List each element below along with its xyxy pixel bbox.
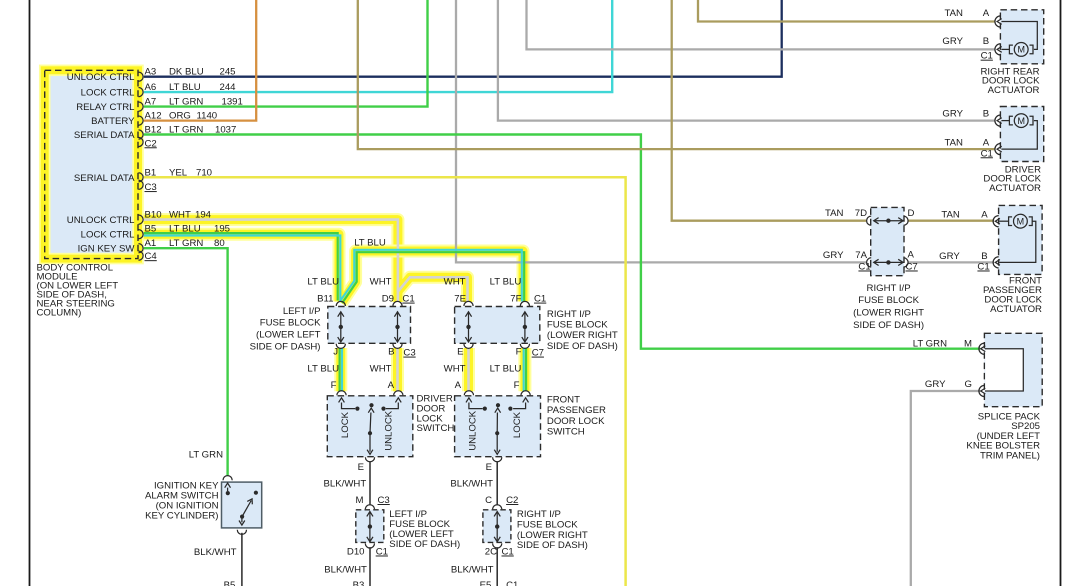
svg-text:SERIAL DATA: SERIAL DATA xyxy=(74,173,135,184)
svg-text:J: J xyxy=(333,346,338,357)
svg-text:A1: A1 xyxy=(145,238,157,249)
wire GRY from splice pack G down at x=910.8 xyxy=(911,391,980,586)
svg-text:C1: C1 xyxy=(981,51,993,62)
splice pack SP205 box xyxy=(984,333,1042,406)
wire LT GRN 80 from BCM A1 to ignition key alarm switch xyxy=(143,248,228,476)
svg-text:C1: C1 xyxy=(534,294,546,305)
svg-text:FUSE BLOCK: FUSE BLOCK xyxy=(517,519,578,530)
svg-text:B11: B11 xyxy=(317,294,333,305)
svg-text:TAN: TAN xyxy=(941,210,960,221)
svg-text:GRY: GRY xyxy=(942,36,963,47)
svg-text:C3: C3 xyxy=(378,495,390,506)
left I/P fuse block (horizontal) box xyxy=(328,307,411,344)
svg-text:(LOWER RIGHT: (LOWER RIGHT xyxy=(547,330,618,341)
svg-text:LOCK CTRL: LOCK CTRL xyxy=(81,230,136,241)
svg-text:LT GRN: LT GRN xyxy=(189,450,223,461)
svg-text:(LOWER LEFT: (LOWER LEFT xyxy=(256,330,321,341)
svg-text:LT GRN: LT GRN xyxy=(169,238,203,249)
body control module U1 box with yellow highlight xyxy=(45,70,138,258)
wire BLK/WHT passenger switch E to right I/P fuse block C xyxy=(496,462,498,505)
svg-text:F: F xyxy=(331,380,337,391)
driver door lock switch box xyxy=(327,396,413,457)
svg-text:SWITCH: SWITCH xyxy=(547,427,585,438)
frame right border xyxy=(1060,0,1062,586)
svg-text:LT GRN: LT GRN xyxy=(169,125,203,136)
svg-text:B5: B5 xyxy=(145,224,157,235)
svg-text:LT BLU: LT BLU xyxy=(169,82,201,93)
svg-text:A: A xyxy=(983,138,990,149)
svg-text:SIDE OF DASH): SIDE OF DASH) xyxy=(547,341,618,352)
svg-text:LT BLU: LT BLU xyxy=(307,364,339,375)
svg-text:DOOR LOCK: DOOR LOCK xyxy=(547,416,605,427)
right I/P fuse block (vertical, right side) box xyxy=(871,207,904,275)
svg-text:WHT: WHT xyxy=(169,210,191,221)
svg-text:E: E xyxy=(486,462,492,473)
svg-text:A12: A12 xyxy=(145,111,162,122)
svg-text:TAN: TAN xyxy=(945,138,964,149)
svg-text:B12: B12 xyxy=(145,125,162,136)
svg-text:TRIM PANEL): TRIM PANEL) xyxy=(980,450,1040,461)
svg-text:A6: A6 xyxy=(145,82,157,93)
svg-text:FUSE BLOCK: FUSE BLOCK xyxy=(858,295,919,306)
svg-text:GRY: GRY xyxy=(942,109,963,120)
svg-text:1391: 1391 xyxy=(222,97,243,108)
svg-text:LT BLU: LT BLU xyxy=(169,224,201,235)
wire GRY from top to right rear door lock actuator B xyxy=(527,0,995,49)
splice pack SP205 interior xyxy=(979,343,1023,397)
wire YEL 710 from BCM B1 down at x=625.6 xyxy=(143,177,626,586)
right I/P fuse block (vertical) pins and fuses xyxy=(867,216,908,267)
svg-text:BLK/WHT: BLK/WHT xyxy=(324,565,367,576)
wire GRY from right I/P fuse block A to front passenger actuator B xyxy=(909,261,995,263)
svg-text:BLK/WHT: BLK/WHT xyxy=(450,479,493,490)
wire BLK/WHT driver switch E to left I/P fuse block M xyxy=(369,462,371,505)
svg-text:SIDE OF DASH): SIDE OF DASH) xyxy=(250,341,321,352)
svg-text:C3: C3 xyxy=(403,348,415,359)
wire LT BLU pair from fuse J to driver door lock switch F xyxy=(339,348,341,391)
driver door lock actuator interior xyxy=(995,114,1037,155)
wire BLK/WHT ignition key alarm switch down xyxy=(241,533,243,586)
svg-text:C1: C1 xyxy=(977,262,989,273)
svg-text:SERIAL DATA: SERIAL DATA xyxy=(74,130,135,141)
svg-text:7F: 7F xyxy=(510,294,521,305)
svg-text:RIGHT I/P: RIGHT I/P xyxy=(517,509,561,520)
wire TAN from top to right I/P fuse block 7D xyxy=(672,0,867,221)
svg-text:A: A xyxy=(981,210,988,221)
svg-text:UNLOCK: UNLOCK xyxy=(384,410,395,451)
svg-text:COLUMN): COLUMN) xyxy=(37,308,82,319)
svg-text:UNLOCK: UNLOCK xyxy=(468,410,479,451)
svg-text:7D: 7D xyxy=(855,208,867,219)
wire BLK/WHT left I/P fuse block D10 down xyxy=(369,547,371,586)
svg-text:710: 710 xyxy=(196,167,212,178)
svg-text:C: C xyxy=(485,495,492,506)
svg-text:B: B xyxy=(983,109,989,120)
front passenger door lock actuator box xyxy=(999,205,1043,274)
driver door lock actuator box xyxy=(1000,107,1043,162)
svg-text:FUSE BLOCK: FUSE BLOCK xyxy=(547,320,608,331)
svg-text:ACTUATOR: ACTUATOR xyxy=(988,85,1040,96)
svg-text:YEL: YEL xyxy=(169,167,188,178)
svg-text:WHT: WHT xyxy=(444,364,466,375)
svg-text:F: F xyxy=(514,380,520,391)
wire BLK/WHT right I/P fuse block 2C down xyxy=(496,547,498,586)
left I/P fuse block pins and fuses xyxy=(336,301,402,348)
svg-text:195: 195 xyxy=(214,224,230,235)
svg-text:RIGHT I/P: RIGHT I/P xyxy=(547,309,591,320)
svg-text:E5: E5 xyxy=(480,580,492,586)
svg-text:7A: 7A xyxy=(855,250,867,261)
svg-text:LOCK CTRL: LOCK CTRL xyxy=(81,88,136,99)
highlight glow: LT BLU 195 circuit xyxy=(143,234,525,391)
svg-text:C1: C1 xyxy=(376,547,388,558)
wire GRY from top to driver door lock actuator B xyxy=(498,0,995,121)
svg-text:A3: A3 xyxy=(145,67,157,78)
svg-text:BLK/WHT: BLK/WHT xyxy=(451,565,494,576)
highlight glow: WHT 194 circuit xyxy=(143,220,469,392)
svg-text:FUSE BLOCK: FUSE BLOCK xyxy=(260,318,321,329)
wire LT BLU 195 pair from BCM B5 to left I/P fuse block B11 xyxy=(143,233,338,300)
svg-text:(LOWER RIGHT: (LOWER RIGHT xyxy=(853,308,924,319)
svg-text:1140: 1140 xyxy=(197,111,218,122)
wire LT GRN 1391 from BCM A7 up at x=427.5 xyxy=(143,0,428,107)
svg-text:B1: B1 xyxy=(145,167,157,178)
svg-text:B5: B5 xyxy=(224,580,236,586)
svg-text:SWITCH: SWITCH xyxy=(417,423,455,434)
svg-text:BLK/WHT: BLK/WHT xyxy=(324,479,367,490)
svg-text:M: M xyxy=(964,339,972,350)
svg-text:TAN: TAN xyxy=(825,208,844,219)
front passenger door lock actuator interior xyxy=(993,214,1036,268)
wire WHT branch to right I/P fuse block 7E xyxy=(398,277,468,302)
wire WHT 194 from BCM B10 to left I/P fuse block D9 xyxy=(143,220,398,302)
svg-text:UNLOCK CTRL: UNLOCK CTRL xyxy=(67,215,135,226)
left I/P fuse block (small, lower) box xyxy=(356,510,384,543)
svg-text:C2: C2 xyxy=(506,495,518,506)
svg-text:LT BLU: LT BLU xyxy=(490,364,522,375)
svg-text:A: A xyxy=(983,8,990,19)
svg-text:C7: C7 xyxy=(906,262,918,273)
svg-text:LEFT I/P: LEFT I/P xyxy=(283,306,321,317)
wire LT BLU 244 from BCM A6 up at x=612.2 xyxy=(143,0,612,92)
svg-text:A: A xyxy=(455,380,462,391)
svg-text:194: 194 xyxy=(195,210,212,221)
svg-text:M: M xyxy=(356,495,364,506)
ignition key alarm switch interior xyxy=(223,476,258,535)
svg-text:A: A xyxy=(388,380,395,391)
svg-text:C7: C7 xyxy=(532,348,544,359)
svg-text:D9: D9 xyxy=(382,294,394,305)
wire LT BLU branch pair to right I/P fuse block 7F xyxy=(342,252,524,303)
svg-text:ORG: ORG xyxy=(169,111,191,122)
right I/P fuse block (small, lower) box xyxy=(483,510,511,543)
svg-text:LOCK: LOCK xyxy=(512,411,523,438)
svg-text:SIDE OF DASH): SIDE OF DASH) xyxy=(853,320,924,331)
svg-text:D: D xyxy=(908,208,915,219)
svg-text:FRONT: FRONT xyxy=(547,395,580,406)
driver door lock switch interior xyxy=(337,391,403,462)
svg-text:C1: C1 xyxy=(502,547,514,558)
svg-text:E: E xyxy=(457,346,463,357)
wire LT GRN 1037 from BCM B12 to splice pack M xyxy=(143,135,980,349)
svg-text:244: 244 xyxy=(220,82,237,93)
svg-text:80: 80 xyxy=(214,238,225,249)
svg-text:LOCK: LOCK xyxy=(340,411,351,438)
svg-text:245: 245 xyxy=(220,67,236,78)
svg-text:B: B xyxy=(981,251,987,262)
wire TAN from right I/P fuse block D to front passenger actuator A xyxy=(909,220,995,222)
wire TAN from top to driver door lock actuator A xyxy=(358,0,995,149)
BCM pin arcs xyxy=(139,72,144,260)
svg-text:SIDE OF DASH): SIDE OF DASH) xyxy=(517,540,588,551)
svg-text:BATTERY: BATTERY xyxy=(91,116,135,127)
right I/P fuse block (horizontal) pins and fuses xyxy=(464,301,530,348)
svg-text:C3: C3 xyxy=(145,182,157,193)
wire WHT from fuse E to front passenger door lock switch A xyxy=(467,348,470,391)
svg-text:C1: C1 xyxy=(858,262,870,273)
svg-text:ACTUATOR: ACTUATOR xyxy=(989,183,1041,194)
svg-text:GRY: GRY xyxy=(925,379,946,390)
svg-text:GRY: GRY xyxy=(823,250,844,261)
svg-text:KEY CYLINDER): KEY CYLINDER) xyxy=(145,511,218,522)
svg-text:(LOWER RIGHT: (LOWER RIGHT xyxy=(517,530,588,541)
svg-text:B10: B10 xyxy=(145,210,162,221)
svg-text:C1: C1 xyxy=(506,580,518,586)
wire DK BLU 245 from BCM A3 up at x=781.7 xyxy=(143,0,782,77)
ignition key alarm switch box (solid) xyxy=(222,482,262,528)
left I/P small fuse block pins and fuse xyxy=(365,505,374,548)
svg-text:7E: 7E xyxy=(454,294,466,305)
svg-text:D10: D10 xyxy=(347,547,365,558)
wire GRY from top to right I/P fuse block 7A xyxy=(456,0,866,262)
svg-text:DK BLU: DK BLU xyxy=(169,67,204,78)
svg-text:RELAY CTRL: RELAY CTRL xyxy=(76,102,135,113)
wire TAN from top to right rear door lock actuator A xyxy=(698,0,995,22)
svg-text:RIGHT I/P: RIGHT I/P xyxy=(867,283,911,294)
right rear door lock actuator box xyxy=(1000,10,1043,64)
svg-text:WHT: WHT xyxy=(444,276,466,287)
svg-text:C1: C1 xyxy=(981,148,993,159)
svg-text:GRY: GRY xyxy=(939,251,960,262)
svg-text:SIDE OF DASH): SIDE OF DASH) xyxy=(389,539,460,550)
svg-text:C4: C4 xyxy=(145,251,158,262)
svg-text:B3: B3 xyxy=(353,580,365,586)
svg-text:LT BLU: LT BLU xyxy=(307,276,339,287)
svg-text:UNLOCK CTRL: UNLOCK CTRL xyxy=(67,72,135,83)
wire ORG 1140 from BCM A12 up at x=256.2 xyxy=(143,0,256,121)
right I/P fuse block (horizontal) box xyxy=(455,307,540,344)
svg-text:E: E xyxy=(358,462,364,473)
svg-text:PASSENGER: PASSENGER xyxy=(547,405,606,416)
front passenger door lock switch interior xyxy=(464,391,530,462)
svg-text:C2: C2 xyxy=(145,138,157,149)
svg-text:B: B xyxy=(388,346,394,357)
svg-text:IGN KEY SW: IGN KEY SW xyxy=(78,244,136,255)
svg-text:F: F xyxy=(516,346,522,357)
svg-text:ACTUATOR: ACTUATOR xyxy=(990,304,1042,315)
svg-text:WHT: WHT xyxy=(370,364,392,375)
right rear door lock actuator interior xyxy=(995,16,1037,56)
svg-text:G: G xyxy=(965,379,972,390)
svg-text:WHT: WHT xyxy=(370,276,392,287)
frame left border xyxy=(29,0,31,586)
svg-text:LT BLU: LT BLU xyxy=(354,237,386,248)
svg-text:BLK/WHT: BLK/WHT xyxy=(194,547,237,558)
svg-text:2C: 2C xyxy=(485,547,497,558)
svg-text:A: A xyxy=(908,250,915,261)
wire WHT from fuse B to driver door lock switch A xyxy=(396,348,399,391)
right I/P small fuse block pins and fuse xyxy=(493,505,502,548)
svg-text:1037: 1037 xyxy=(215,125,236,136)
svg-text:LT GRN: LT GRN xyxy=(169,97,203,108)
wire LT BLU pair from fuse F to front passenger door lock switch F xyxy=(523,348,525,391)
svg-text:TAN: TAN xyxy=(945,8,964,19)
svg-text:A7: A7 xyxy=(145,97,157,108)
svg-text:LT BLU: LT BLU xyxy=(490,276,522,287)
svg-text:LT GRN: LT GRN xyxy=(913,339,947,350)
front passenger door lock switch box xyxy=(455,396,541,457)
svg-text:C1: C1 xyxy=(402,294,414,305)
svg-text:B: B xyxy=(983,36,989,47)
